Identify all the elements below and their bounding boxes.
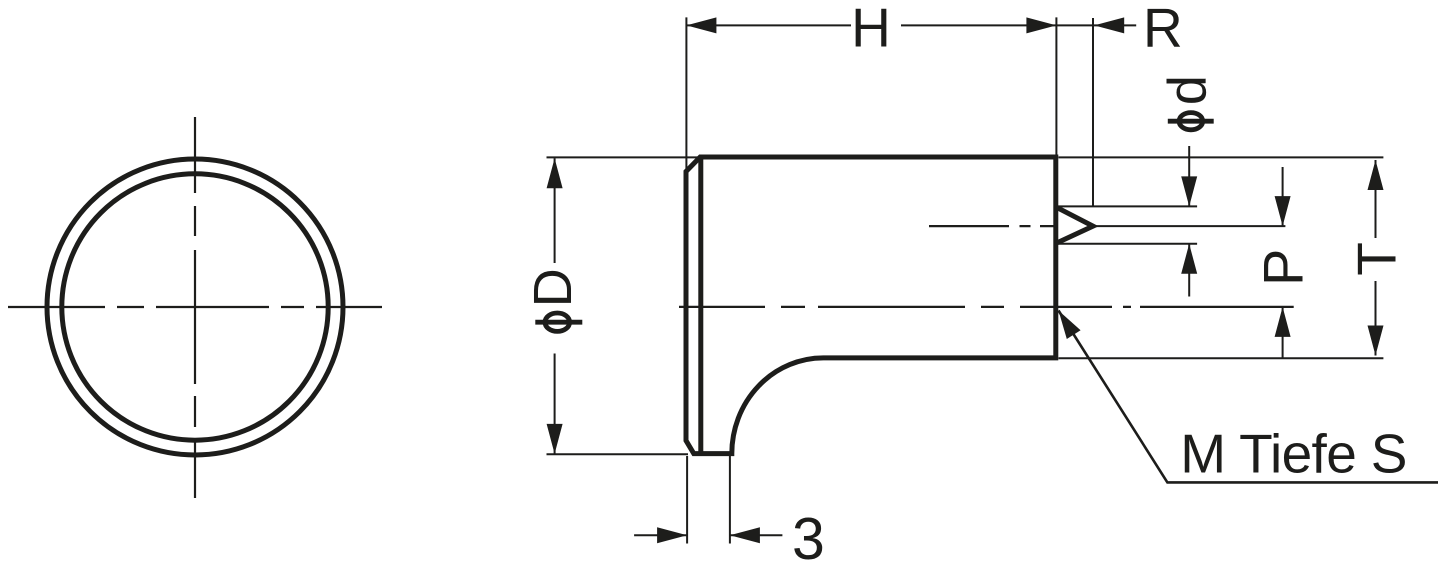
phi-D arrow upper — [547, 158, 563, 188]
phi-D arrow lower — [547, 424, 563, 454]
P dimension line lower — [1282, 307, 1284, 359]
phi symbol of phi-d — [1168, 113, 1214, 130]
3 arrow left (pointing right) — [657, 527, 687, 543]
T dimension line — [1375, 160, 1377, 356]
P arrow upper — [1275, 196, 1291, 226]
leader line M Tiefe S — [1059, 311, 1439, 483]
svg-text:M Tiefe S: M Tiefe S — [1180, 423, 1407, 485]
hole axis extension thin — [1093, 225, 1285, 227]
phi-d extension lines — [1058, 206, 1197, 243]
phi symbol of phi-D — [535, 313, 582, 331]
H dimension extension lines — [686, 17, 1093, 206]
H dimension line — [686, 24, 1136, 26]
svg-text:3: 3 — [792, 506, 825, 565]
phi-D dimension line lower — [554, 354, 556, 454]
3 dimension line left — [634, 534, 687, 536]
svg-text:d: d — [1158, 75, 1218, 105]
front view outer circle — [47, 159, 343, 455]
svg-text:P: P — [1252, 249, 1315, 286]
phi-D extension lines — [547, 157, 701, 454]
side view body outline — [686, 157, 1056, 454]
3 arrow right (pointing left) — [730, 527, 760, 543]
svg-text:D: D — [523, 268, 583, 307]
phi-d dimension line upper — [1188, 146, 1190, 206]
phi-d arrow upper — [1181, 176, 1197, 206]
P arrow lower — [1275, 307, 1291, 337]
main axis dash-dot — [679, 306, 1294, 308]
horizontal centerline of front view — [8, 306, 382, 308]
phi-D dimension line upper — [554, 158, 556, 263]
flange face line — [698, 158, 703, 453]
svg-text:H: H — [851, 0, 891, 59]
H arrow left — [686, 17, 716, 33]
phi-d dimension line lower — [1188, 244, 1190, 297]
P dimension line upper — [1282, 167, 1284, 226]
hole axis dash-dot — [929, 225, 1057, 227]
H arrow right — [1026, 17, 1056, 33]
front view inner circle — [62, 174, 328, 440]
leader arrowhead — [1059, 311, 1081, 340]
T extension lines — [1059, 157, 1384, 358]
vertical centerline of front view — [194, 117, 196, 498]
tapped hole cone V — [1058, 208, 1094, 243]
3 dimension extension lines — [687, 456, 730, 544]
svg-text:R: R — [1143, 0, 1183, 59]
T arrow bottom — [1368, 326, 1384, 356]
3 dimension line right — [730, 534, 783, 536]
T arrow top — [1368, 160, 1384, 190]
phi-d arrow lower — [1181, 244, 1197, 274]
svg-text:T: T — [1345, 242, 1407, 276]
R arrow — [1094, 17, 1124, 33]
